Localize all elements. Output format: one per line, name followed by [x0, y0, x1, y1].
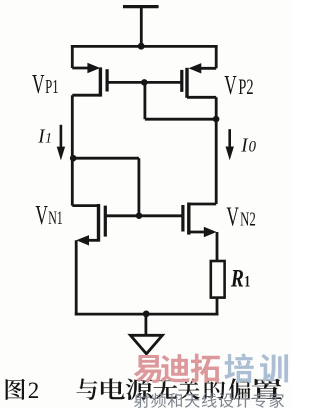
- caption text 源: [126, 379, 153, 400]
- junction: gate node dot: [141, 79, 148, 86]
- wire: mirror connector down to NMOS gates: [137, 158, 140, 216]
- transistor VN2 drain lead: [189, 203, 216, 206]
- caption text 图: [6, 379, 25, 400]
- svg-text:VN1: VN1: [35, 200, 62, 230]
- wire: VN2 source down to resistor: [216, 232, 219, 260]
- current arrow I0 head: [226, 147, 234, 161]
- junction: NMOS gate dot: [136, 212, 143, 219]
- transistor VP2 channel bar: [185, 68, 188, 98]
- junction: stem to top rail: [138, 43, 145, 50]
- transistor VN1 source arrow: [76, 235, 89, 245]
- watermark tagline char 计: [235, 393, 250, 408]
- transistor VN1 channel bar: [97, 204, 100, 242]
- watermark tagline char 天: [185, 394, 200, 408]
- watermark tagline char 频: [151, 393, 166, 408]
- transistor VN2 gate bar: [181, 205, 184, 232]
- caption text 置: [251, 379, 282, 399]
- power supply stem: [140, 7, 143, 47]
- svg-text:I0: I0: [240, 135, 256, 157]
- transistor VN2 source arrow: [204, 227, 217, 237]
- wire: left branch VP1 drain down to VN1 drain: [71, 95, 74, 205]
- ground symbol triangle: [130, 335, 162, 354]
- junction: left branch dot: [70, 155, 77, 162]
- wire: top rail right corner down to VP2 source: [215, 45, 218, 68]
- watermark logo char 训: [260, 354, 288, 383]
- resistor R1 body: [211, 261, 225, 298]
- wire: gate node down: [143, 82, 146, 119]
- junction: right branch dot: [213, 116, 220, 123]
- transistor VN1 gate bar: [104, 206, 107, 237]
- wire: top rail left corner down to VP1 source: [71, 45, 74, 68]
- wire: VN1 source down to ground rail: [75, 240, 78, 315]
- ground rail wire: [75, 313, 219, 316]
- wire: PMOS common gate (VP1 gate to VP2 gate): [107, 81, 182, 84]
- transistor VP2 drain lead: [187, 96, 216, 99]
- caption text 无: [153, 379, 177, 400]
- wire: right branch VP2 drain down to VN2 drain: [215, 97, 218, 204]
- watermark tagline char 和: [168, 393, 182, 408]
- transistor VP1 source lead: [72, 67, 88, 70]
- caption text 关: [178, 378, 200, 400]
- watermark tagline char 家: [269, 393, 284, 408]
- caption text 的: [205, 378, 226, 400]
- transistor VN1 source lead: [88, 239, 99, 242]
- svg-text:VN2: VN2: [226, 202, 255, 232]
- transistor VP1 source arrow: [87, 63, 100, 73]
- current arrow I0 shaft: [228, 129, 231, 149]
- transistor VP2 source lead: [200, 67, 216, 70]
- wire: left branch across to mirror connector: [72, 157, 139, 160]
- watermark tagline char 设: [219, 393, 234, 408]
- svg-text:VP2: VP2: [224, 70, 253, 100]
- transistor VP1 channel bar: [99, 67, 102, 96]
- watermark logo char 拓: [191, 354, 220, 383]
- svg-text:VP1: VP1: [32, 69, 59, 99]
- watermark tagline char 线: [202, 393, 217, 408]
- transistor VN2 channel bar: [187, 203, 190, 235]
- junction: ground stem dot: [143, 311, 150, 318]
- transistor VP1 drain lead: [72, 94, 100, 97]
- svg-text:R1: R1: [230, 264, 250, 292]
- watermark logo char 易: [134, 355, 162, 383]
- svg-text:2: 2: [28, 378, 40, 403]
- power supply VDD T-bar: [123, 5, 159, 8]
- watermark logo char 培: [224, 354, 253, 383]
- caption text 偏: [229, 378, 251, 400]
- caption text 电: [101, 378, 125, 399]
- current arrow I1 head: [57, 147, 65, 161]
- wire: resistor to ground rail: [216, 298, 219, 315]
- wire: NMOS common gate (VN1 gate to VN2 gate): [105, 214, 183, 217]
- svg-text:I1: I1: [37, 126, 52, 148]
- watermark logo char 迪: [161, 354, 190, 383]
- watermark tagline char 射: [134, 393, 149, 408]
- transistor VP2 source arrow: [189, 63, 202, 73]
- ground stem: [144, 314, 147, 335]
- transistor VN2 source lead: [189, 231, 205, 234]
- top rail wire: [71, 45, 218, 48]
- wire: gate node across to right branch: [145, 118, 216, 121]
- transistor VP2 gate bar: [180, 70, 183, 92]
- transistor VN1 drain lead: [72, 204, 98, 207]
- transistor VP1 gate bar: [105, 69, 108, 91]
- watermark tagline char 专: [253, 393, 267, 408]
- current arrow I1 shaft: [60, 125, 63, 149]
- caption text 与: [77, 378, 98, 400]
